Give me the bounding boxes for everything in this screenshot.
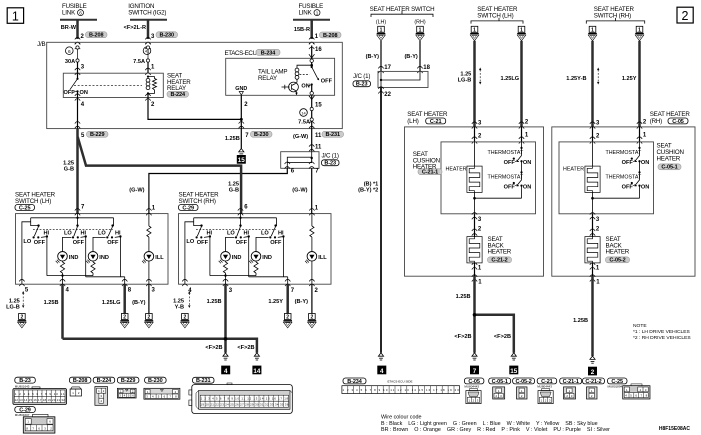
svg-text:B-231: B-231 [196, 378, 211, 384]
svg-text:(LH): (LH) [407, 118, 418, 125]
ground run panel 1 [63, 337, 257, 353]
connector 7 B-230 with wire 1.25B to ground 15 [225, 122, 272, 165]
svg-text:C-25: C-25 [19, 205, 31, 211]
svg-text:(B-Y): (B-Y) [295, 299, 308, 305]
RH seat heater header C-05 [650, 111, 691, 125]
svg-text:B-234: B-234 [347, 379, 363, 385]
svg-text:SWITCH (RH): SWITCH (RH) [179, 198, 216, 205]
seat heater relay box B-224 [63, 73, 191, 99]
J/C(1) pin 22 ground wire B / B-Y [358, 87, 392, 353]
connector C-05-1 pinout [489, 378, 511, 399]
svg-text:1.25B: 1.25B [44, 300, 59, 306]
ETACS pin 16 entry [309, 46, 322, 67]
svg-text:4: 4 [224, 368, 228, 375]
svg-text:B-229: B-229 [90, 132, 105, 138]
svg-text:6: 6 [68, 49, 71, 55]
connector C-25 pinout [608, 378, 651, 399]
LH seat heater outer box C-21 [405, 127, 544, 276]
svg-text:B-234: B-234 [261, 50, 277, 56]
connector B-23 pinout [13, 377, 67, 404]
svg-text:11: 11 [315, 133, 322, 139]
relay internal dashed link [74, 84, 142, 86]
svg-text:15: 15 [510, 368, 518, 375]
svg-text:1: 1 [591, 27, 594, 33]
svg-text:7.5A: 7.5A [133, 59, 145, 65]
svg-text:MU804443: MU804443 [464, 385, 479, 389]
svg-text:30A: 30A [65, 59, 75, 65]
svg-text:ON: ON [80, 90, 88, 96]
svg-text:<F>2B: <F>2B [205, 345, 222, 351]
svg-text:(G-W): (G-W) [293, 134, 308, 140]
wire 1.25LG LH [501, 41, 522, 127]
svg-text:2: 2 [286, 315, 289, 321]
svg-text:SWITCH (RH): SWITCH (RH) [594, 12, 631, 19]
panel2 LH switch column header [471, 6, 523, 24]
svg-text:HEATER: HEATER [606, 249, 630, 256]
connector 3 B-230 [145, 32, 177, 49]
tail lamp relay contact ON/OFF [301, 66, 332, 95]
svg-text:1: 1 [419, 27, 422, 33]
svg-text:(G-W): (G-W) [292, 188, 307, 194]
svg-text:B-230: B-230 [159, 33, 174, 39]
RH pin 4 dashed continuation 1.25Y-B to connector 2 [173, 291, 190, 328]
ground 14 [252, 353, 261, 375]
RH seat heater internals [559, 120, 654, 286]
svg-text:B-208: B-208 [73, 378, 88, 384]
svg-text:1: 1 [473, 27, 476, 33]
connector B-234 pinout ETACS-ECU side [342, 378, 460, 394]
svg-text:15B-R: 15B-R [294, 27, 310, 33]
svg-text:(B-Y): (B-Y) [404, 54, 417, 60]
svg-text:1.25B: 1.25B [207, 299, 222, 305]
RH column arrow connector 1 (left) [588, 26, 597, 40]
sheet number 1 [7, 8, 23, 23]
svg-text:SEAT HEATER: SEAT HEATER [407, 111, 448, 118]
svg-text:B-208: B-208 [89, 33, 104, 39]
svg-text:3 4 5 6: 3 4 5 6 [119, 394, 134, 398]
LH pin 8 wire 1.25LG to connector 2 [102, 284, 129, 328]
svg-text:HEATER: HEATER [563, 166, 584, 172]
svg-text:1.25Y: 1.25Y [268, 299, 283, 305]
svg-text:(RH): (RH) [650, 118, 662, 125]
svg-text:Wire colour code: Wire colour code [381, 415, 421, 421]
ETACS pin 15 exit with fuse 14 [298, 95, 322, 128]
svg-text:1 2 3 4 5 6 7 8 9 10 11 12 13: 1 2 3 4 5 6 7 8 9 10 11 12 13 14 15 16 1… [343, 388, 460, 392]
ground 7 [470, 353, 479, 375]
junction connector J/C(1) B-23 panel 2 [353, 71, 428, 87]
wire 1.25Y RH [622, 41, 640, 127]
svg-text:RELAY: RELAY [258, 75, 277, 82]
svg-text:B-23: B-23 [19, 378, 31, 384]
RH column arrow connector 1 (right) [635, 26, 644, 40]
svg-text:C-05-2: C-05-2 [515, 379, 531, 385]
svg-text:14: 14 [253, 368, 261, 375]
RH cushion heater labels C-05-1 [563, 142, 684, 172]
svg-text:*2 : RH DRIVE VEHICLES: *2 : RH DRIVE VEHICLES [633, 335, 691, 341]
svg-text:H8F15E08AC: H8F15E08AC [659, 426, 691, 432]
svg-text:2: 2 [123, 315, 126, 321]
connector B-231 pinout [189, 377, 292, 413]
svg-text:J/C (1): J/C (1) [322, 153, 339, 160]
fusible link 6 bus bar [60, 19, 97, 21]
connector B-230 pinout [144, 377, 180, 399]
from-switch RH arrow connector 1 [416, 26, 425, 40]
connector B-208 pinout [69, 377, 91, 396]
svg-text:C-05-1: C-05-1 [492, 379, 508, 385]
wire 1.25Y-B RH [566, 41, 599, 127]
svg-text:(B-Y): (B-Y) [366, 54, 379, 60]
svg-text:C-21-1: C-21-1 [563, 379, 579, 385]
LH heater ground wires 1.25B [454, 276, 513, 353]
svg-text:B-23: B-23 [324, 161, 336, 167]
svg-text:BR : Brown O : Orange GR: BR : Brown O : Orange GR : Grey R : Red … [381, 427, 610, 433]
from-switch LH arrow connector 1 [377, 26, 386, 40]
junction connector J/C(1) B-23 panel 1 [281, 152, 339, 169]
connector B-224 pinout [93, 377, 115, 405]
fusible link 1 label [299, 3, 324, 17]
connector C-21 pinout [537, 378, 557, 404]
ETACS-ECU box B-234 [225, 49, 335, 95]
svg-text:B-224: B-224 [97, 378, 113, 384]
svg-text:1.25LG: 1.25LG [102, 300, 121, 306]
svg-text:19 20 21 22 23 24 25 26 27 28: 19 20 21 22 23 24 25 26 27 28 29 30 31 3… [200, 403, 288, 407]
LH seat heater switch header C-25 [15, 191, 56, 211]
svg-text:11: 11 [315, 145, 322, 151]
wire G-W from J/C pin 7 to RH switch pin 1 [292, 168, 311, 213]
svg-text:C-21-1: C-21-1 [422, 170, 438, 176]
wire B-Y to J/C(1) pin 17 [366, 41, 392, 73]
LH column arrow connector 1 (left) [470, 26, 479, 40]
svg-text:1.25Y-B: 1.25Y-B [566, 76, 586, 82]
svg-text:ON: ON [301, 84, 309, 90]
J/C(1) pin 6 and pin 7 [285, 162, 320, 174]
svg-text:B-231: B-231 [325, 132, 340, 138]
svg-text:SWITCH (IG2): SWITCH (IG2) [128, 10, 166, 17]
sheet number 2 [677, 7, 693, 23]
svg-text:B-208: B-208 [323, 33, 338, 39]
svg-text:1: 1 [380, 27, 383, 33]
panel2 seat heater switch header with brace [370, 6, 435, 26]
wire G-W from J/C pin 6 to LH switch pin 1 [129, 168, 287, 213]
svg-text:HEATER: HEATER [446, 166, 467, 172]
svg-text:<F>2B: <F>2B [237, 345, 254, 351]
svg-text:2: 2 [682, 9, 689, 23]
connector C-05-2 pinout [513, 378, 535, 399]
RH seat heater switch header C-29 [179, 191, 220, 211]
svg-text:J/C (1): J/C (1) [353, 73, 370, 80]
wire colour code legend [381, 415, 610, 433]
svg-text:LINK: LINK [62, 10, 76, 17]
svg-text:<F>2L-R: <F>2L-R [124, 25, 146, 31]
LH seat heater header C-21 [407, 111, 448, 125]
LH pin 5 dashed continuation 1.25LG-B to connector 2 [6, 291, 26, 328]
relay pin 2 wire to ETACS ground junction [145, 94, 241, 120]
svg-text:G-B: G-B [64, 167, 74, 173]
svg-text:MU801894: MU801894 [608, 385, 623, 389]
svg-text:NOTE: NOTE [633, 323, 647, 329]
svg-text:6: 6 [79, 10, 82, 15]
svg-text:SEAT HEATER: SEAT HEATER [650, 111, 691, 118]
connector 2 B-208 [75, 32, 107, 49]
fuse 41 7.5A [133, 46, 151, 65]
wire B-Y to J/C(1) pin 18 [404, 41, 430, 73]
RH pin 2 wire B-Y to connector 2 [295, 284, 317, 328]
svg-text:15: 15 [315, 103, 322, 109]
connector C-29 pinout [15, 407, 55, 433]
svg-text:C-29: C-29 [182, 205, 194, 211]
svg-text:C-21-2: C-21-2 [491, 258, 507, 264]
RH switch bottom pin labels 4 3 7 2 [188, 288, 318, 294]
LH column arrow connector 1 (right) [517, 26, 526, 40]
relay coil with resistor [77, 73, 157, 98]
panel2 RH switch column header [586, 6, 644, 24]
svg-text:C-21-2: C-21-2 [585, 379, 601, 385]
svg-text:1.25Y: 1.25Y [622, 76, 637, 82]
fusible link 1 bus bar [293, 19, 330, 21]
wire BR-W from fusible link 6 [61, 20, 78, 39]
ground 4 [221, 353, 230, 375]
wire G-W to J/C(1) pin 11 [309, 129, 322, 152]
svg-text:SWITCH (LH): SWITCH (LH) [477, 12, 513, 19]
wire 2L-R from ignition switch [124, 20, 148, 39]
ignition switch IG2 label [128, 3, 166, 17]
connector 11 B-231 [293, 122, 344, 141]
svg-text:1: 1 [638, 27, 641, 33]
connector C-21-1 pinout [560, 378, 582, 399]
svg-text:HEATER: HEATER [488, 249, 512, 256]
svg-text:RELAY: RELAY [167, 85, 186, 92]
connector B-229 pinout [117, 377, 138, 398]
fusible link 6 label [62, 3, 87, 17]
svg-text:HEATER: HEATER [657, 155, 681, 162]
wire 15B-R from fusible link 1 [294, 20, 312, 39]
connector C-05 pinout [464, 378, 484, 404]
svg-text:Y-B: Y-B [175, 304, 184, 310]
svg-text:(B-Y): (B-Y) [132, 300, 145, 306]
svg-text:7: 7 [473, 368, 477, 375]
svg-text:B-229: B-229 [121, 378, 136, 384]
tail lamp relay label [258, 69, 287, 82]
ground 2 [588, 356, 597, 376]
RH seat heater outer box C-05 [552, 127, 695, 276]
svg-text:8 7 6 3 2: 8 7 6 3 2 [26, 427, 52, 431]
ignition switch bus bar [130, 19, 167, 21]
svg-text:C-21: C-21 [430, 119, 442, 125]
tail lamp relay coil [295, 65, 312, 82]
wire fuse6 to relay pin 3 [75, 62, 85, 75]
svg-text:B-230: B-230 [254, 132, 269, 138]
svg-text:(LH): (LH) [376, 20, 387, 26]
svg-text:2: 2 [591, 369, 595, 376]
svg-text:(B-Y) *2: (B-Y) *2 [358, 187, 378, 193]
RH heater ground wire 1.25B [573, 276, 592, 356]
svg-text:MU801645: MU801645 [15, 384, 30, 388]
svg-text:B-230: B-230 [148, 378, 163, 384]
ETACS GND pin 2 [235, 86, 248, 148]
note [633, 323, 691, 341]
svg-text:*1 : LH DRIVE VEHICLES: *1 : LH DRIVE VEHICLES [633, 329, 691, 335]
ground 4 panel 2 [377, 353, 386, 375]
svg-text:OFF: OFF [64, 90, 76, 96]
svg-text:ETACS-ECU SIDE: ETACS-ECU SIDE [388, 380, 413, 384]
svg-text:B-224: B-224 [170, 92, 186, 98]
svg-text:22: 22 [384, 92, 391, 98]
junction block J/B box [37, 41, 342, 129]
svg-text:15: 15 [238, 157, 246, 164]
svg-text:1.25B: 1.25B [573, 318, 588, 324]
svg-text:1.25LG: 1.25LG [501, 76, 520, 82]
LH pin 3 wire B-Y to connector 2 [132, 284, 153, 328]
svg-text:B-23: B-23 [356, 82, 368, 88]
RH seat back heater labels C-05-2 [606, 236, 630, 264]
svg-text:1 2 3 4 5 6 7 8 9 10 11 12 13: 1 2 3 4 5 6 7 8 9 10 11 12 13 14 15 16 1… [201, 397, 289, 401]
connector 1 B-208 [309, 32, 341, 49]
svg-text:1.25B: 1.25B [225, 136, 240, 142]
svg-text:<F>2B: <F>2B [454, 334, 471, 340]
svg-text:C-05: C-05 [672, 119, 684, 125]
svg-text:OFF: OFF [321, 79, 333, 85]
svg-text:17: 17 [384, 65, 391, 71]
connector C-21-2 pinout [583, 378, 605, 399]
svg-text:LINK: LINK [299, 10, 313, 17]
svg-text:C-05-2: C-05-2 [609, 258, 625, 264]
svg-text:1.25B: 1.25B [456, 294, 471, 300]
svg-text:<F>2B: <F>2B [494, 334, 511, 340]
ground 15 [509, 353, 518, 375]
fuse 6 30A [65, 46, 79, 65]
LH seat heater internals [441, 120, 536, 286]
svg-text:18: 18 [423, 65, 430, 71]
svg-text:MU804607: MU804607 [15, 413, 30, 417]
svg-text:G-B: G-B [229, 188, 239, 194]
svg-text:2: 2 [21, 315, 24, 321]
tail lamp relay dashed link [300, 73, 310, 75]
svg-text:LG-B: LG-B [6, 304, 20, 310]
svg-text:7.5A: 7.5A [298, 120, 310, 126]
RH pin 3 wire 1.25B to ground run [207, 284, 226, 353]
RH seat heater switch internals [179, 209, 332, 287]
svg-text:2: 2 [148, 315, 151, 321]
svg-text:J/B: J/B [37, 41, 45, 48]
svg-text:1: 1 [12, 9, 19, 23]
svg-text:2: 2 [184, 315, 187, 321]
svg-text:SWITCH (LH): SWITCH (LH) [15, 198, 51, 205]
svg-text:1 2 3 4 5 6 7 8 9 10 11: 1 2 3 4 5 6 7 8 9 10 11 [15, 392, 65, 396]
svg-text:ETACS-ECU: ETACS-ECU [225, 50, 257, 57]
RH pin 7 wire 1.25Y to connector 2 [268, 284, 292, 328]
svg-text:4: 4 [380, 368, 384, 375]
svg-text:MU804443: MU804443 [537, 385, 552, 389]
LH switch top pin labels 7 and 1 [81, 205, 156, 212]
svg-text:(G-W): (G-W) [129, 188, 144, 194]
svg-text:LG-B: LG-B [458, 78, 472, 84]
svg-text:C-05-1: C-05-1 [661, 165, 677, 171]
tail lamp relay transistor [282, 82, 299, 95]
relay contact OFF/ON [64, 73, 88, 97]
LH seat back heater labels C-21-2 [488, 236, 512, 264]
svg-text:(RH): (RH) [414, 20, 425, 26]
wire fuse41 to relay pin 1 [145, 62, 155, 75]
svg-text:2: 2 [311, 315, 314, 321]
LH cushion heater labels C-21-1 [413, 151, 467, 176]
svg-text:16: 16 [315, 47, 322, 53]
LH seat heater switch internals [16, 209, 169, 287]
LH pin 4 wire 1.25B to ground run [44, 284, 63, 339]
wire 1.25LG-B LH [458, 41, 482, 127]
svg-text:1: 1 [520, 27, 523, 33]
RH switch top pin labels 6 and 1 [244, 205, 318, 212]
svg-text:BR-W: BR-W [61, 25, 77, 31]
svg-text:41: 41 [145, 49, 149, 54]
svg-text:12 13 14 15 16 17 18 19 20 21: 12 13 14 15 16 17 18 19 20 21 32 [15, 398, 66, 402]
relay pin 4 to connector 5 B-229 [75, 94, 108, 139]
wire A 1.25 G-B main feed from relay [63, 129, 241, 214]
LH switch bottom pin labels 5 4 8 3 [25, 288, 156, 294]
svg-text:1: 1 [316, 10, 319, 15]
